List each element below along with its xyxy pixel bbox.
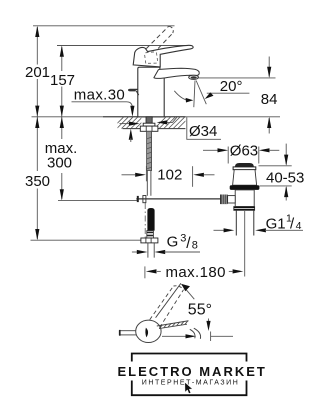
countertop hatching left [112, 117, 152, 129]
20deg curved arrow [174, 91, 188, 101]
svg-text:55°: 55° [188, 302, 212, 319]
extension line lever-tip (157 reference) [57, 45, 191, 47]
faucet centerline dash-dot [144, 203, 146, 240]
cursor arrow [185, 382, 193, 393]
svg-text:84: 84 [261, 91, 278, 108]
svg-text:300: 300 [47, 154, 72, 171]
drain knurled knob [220, 195, 228, 205]
water stream vertical line [194, 81, 195, 108]
hose end fitting [147, 231, 154, 238]
55deg small arrow down [208, 319, 210, 328]
extension line top (201/350 reference) [33, 25, 175, 27]
svg-text:ИНТЕРНЕТ-МАГАЗИН: ИНТЕРНЕТ-МАГАЗИН [142, 380, 240, 387]
G1 1/4 callout [214, 229, 225, 231]
top view dashed rotated lever [150, 286, 174, 320]
svg-text:350: 350 [25, 173, 50, 190]
svg-text:157: 157 [50, 72, 75, 89]
arrow 84 top down [267, 67, 271, 78]
arrow max300 top up [60, 117, 64, 128]
threaded rod [147, 131, 152, 170]
top view body circle [136, 320, 161, 342]
mounting nut [140, 126, 158, 131]
20deg underline leader [207, 92, 250, 94]
top view lever hatch ticks [160, 321, 188, 328]
drain locking ring black [230, 185, 260, 190]
drain flange disc [233, 167, 256, 170]
faucet body [138, 67, 164, 117]
svg-text:G: G [167, 234, 179, 251]
drain tailpipe [236, 210, 254, 235]
dimension 84 vertical [268, 57, 270, 77]
pivot block [143, 196, 146, 203]
rod below [147, 171, 151, 196]
svg-text:40-53: 40-53 [266, 169, 304, 186]
svg-text:/: / [186, 235, 191, 252]
water stream 20deg line [196, 81, 206, 105]
top view reference line with arrow [162, 335, 187, 337]
arrow max300 bottom down [60, 189, 64, 200]
Ø34 label box [187, 117, 221, 139]
faucet dashed raised lever tip arc [169, 26, 174, 33]
top view dark crescent [145, 328, 148, 338]
max.30 arrow up to countertop bottom [129, 129, 133, 140]
arrow 201 top up [35, 26, 39, 37]
faucet spout [154, 68, 199, 78]
drain body [235, 190, 254, 207]
svg-text:20°: 20° [220, 78, 243, 95]
extension line max300 bottom [58, 199, 137, 201]
G3/8 diameter arrows [132, 251, 138, 253]
flexible hose black [147, 208, 154, 231]
dimension line x=37.3 (201/350) [36, 27, 38, 239]
max.30 leader underline [72, 102, 133, 108]
faucet cartridge dashed outline [145, 52, 158, 64]
svg-text:201: 201 [25, 64, 50, 81]
faucet dashed raised lever line 1 [136, 26, 169, 59]
dimension 40-53 [285, 144, 287, 165]
countertop top line [103, 116, 185, 118]
svg-text:G1: G1 [266, 215, 286, 232]
shank through countertop [146, 117, 152, 123]
countertop bottom line [123, 128, 186, 130]
drain knob connector [228, 196, 236, 203]
arrow 84 bottom up [267, 117, 271, 128]
dimension line x=61.8 (157/max300) [61, 47, 63, 200]
rod end cap [137, 196, 139, 202]
drain neck [233, 170, 257, 186]
dimension max.180 [144, 266, 146, 278]
G3/8 nut [141, 238, 158, 243]
svg-text:max.30: max.30 [74, 86, 125, 103]
pop-up horizontal rod [136, 198, 220, 200]
logo box [132, 354, 247, 362]
top view spout stub [119, 331, 137, 335]
arrow 350 bottom down [35, 229, 39, 240]
svg-text:Ø34: Ø34 [189, 123, 217, 140]
drain vertical rod [244, 211, 246, 277]
supply pipe below nut [148, 243, 154, 258]
svg-text:8: 8 [192, 240, 198, 252]
svg-text:ELECTRO MARKET: ELECTRO MARKET [118, 364, 267, 379]
top view 55deg solid swing line [156, 283, 181, 317]
55deg leader and arrowhead [182, 284, 195, 299]
arrow 201 bottom down [35, 106, 39, 117]
20deg arrowhead [205, 92, 214, 99]
extension line 350 bottom [31, 239, 141, 241]
countertop hatching right [154, 117, 189, 129]
arrow 157 bottom down [60, 106, 64, 117]
faucet aerator [189, 75, 199, 79]
arrow 350 mid up [35, 117, 39, 128]
svg-text:Ø63: Ø63 [230, 143, 258, 160]
faucet pop-up hook [129, 89, 138, 90]
drain plug dome [235, 163, 254, 167]
svg-text:102: 102 [157, 167, 182, 184]
max.30 arrow down to countertop [130, 106, 134, 117]
top view spout end arcs [194, 328, 201, 339]
washer under countertop [143, 123, 155, 126]
faucet lever and base block [133, 45, 193, 67]
faucet dashed raised lever line 2 [143, 33, 173, 65]
extension line spout outlet (84 top) [197, 77, 276, 79]
extension line countertop level (long) [32, 116, 281, 118]
Ø63 dimension arrows [203, 149, 218, 151]
svg-text:max.180: max.180 [166, 264, 226, 281]
svg-text:4: 4 [296, 220, 302, 232]
Ø34 hole callout arrows [120, 123, 130, 125]
drain pop-up waste: Ø63 extension lines [228, 147, 259, 164]
arrow 157 top up [60, 46, 64, 57]
top view lever bar lines [157, 321, 189, 326]
dimension 102 [122, 174, 136, 176]
drain coupling [234, 207, 255, 211]
